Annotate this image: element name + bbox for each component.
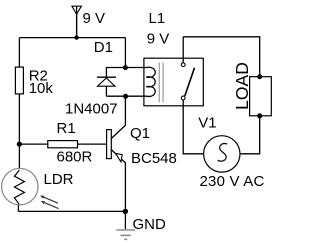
svg-text:BC548: BC548 bbox=[131, 150, 177, 167]
svg-text:D1: D1 bbox=[94, 39, 113, 56]
svg-text:LDR: LDR bbox=[44, 171, 74, 188]
svg-text:L1: L1 bbox=[149, 10, 166, 27]
svg-text:GND: GND bbox=[133, 216, 167, 233]
svg-text:9 V: 9 V bbox=[147, 31, 170, 48]
svg-text:230 V AC: 230 V AC bbox=[200, 173, 265, 190]
svg-text:R1: R1 bbox=[57, 120, 76, 137]
svg-text:V1: V1 bbox=[198, 115, 216, 132]
svg-text:680R: 680R bbox=[57, 149, 93, 166]
svg-text:1N4007: 1N4007 bbox=[65, 101, 118, 118]
svg-text:9 V: 9 V bbox=[83, 10, 106, 27]
svg-text:Q1: Q1 bbox=[130, 125, 150, 142]
svg-text:LOAD: LOAD bbox=[232, 62, 252, 110]
svg-text:10k: 10k bbox=[29, 80, 54, 97]
